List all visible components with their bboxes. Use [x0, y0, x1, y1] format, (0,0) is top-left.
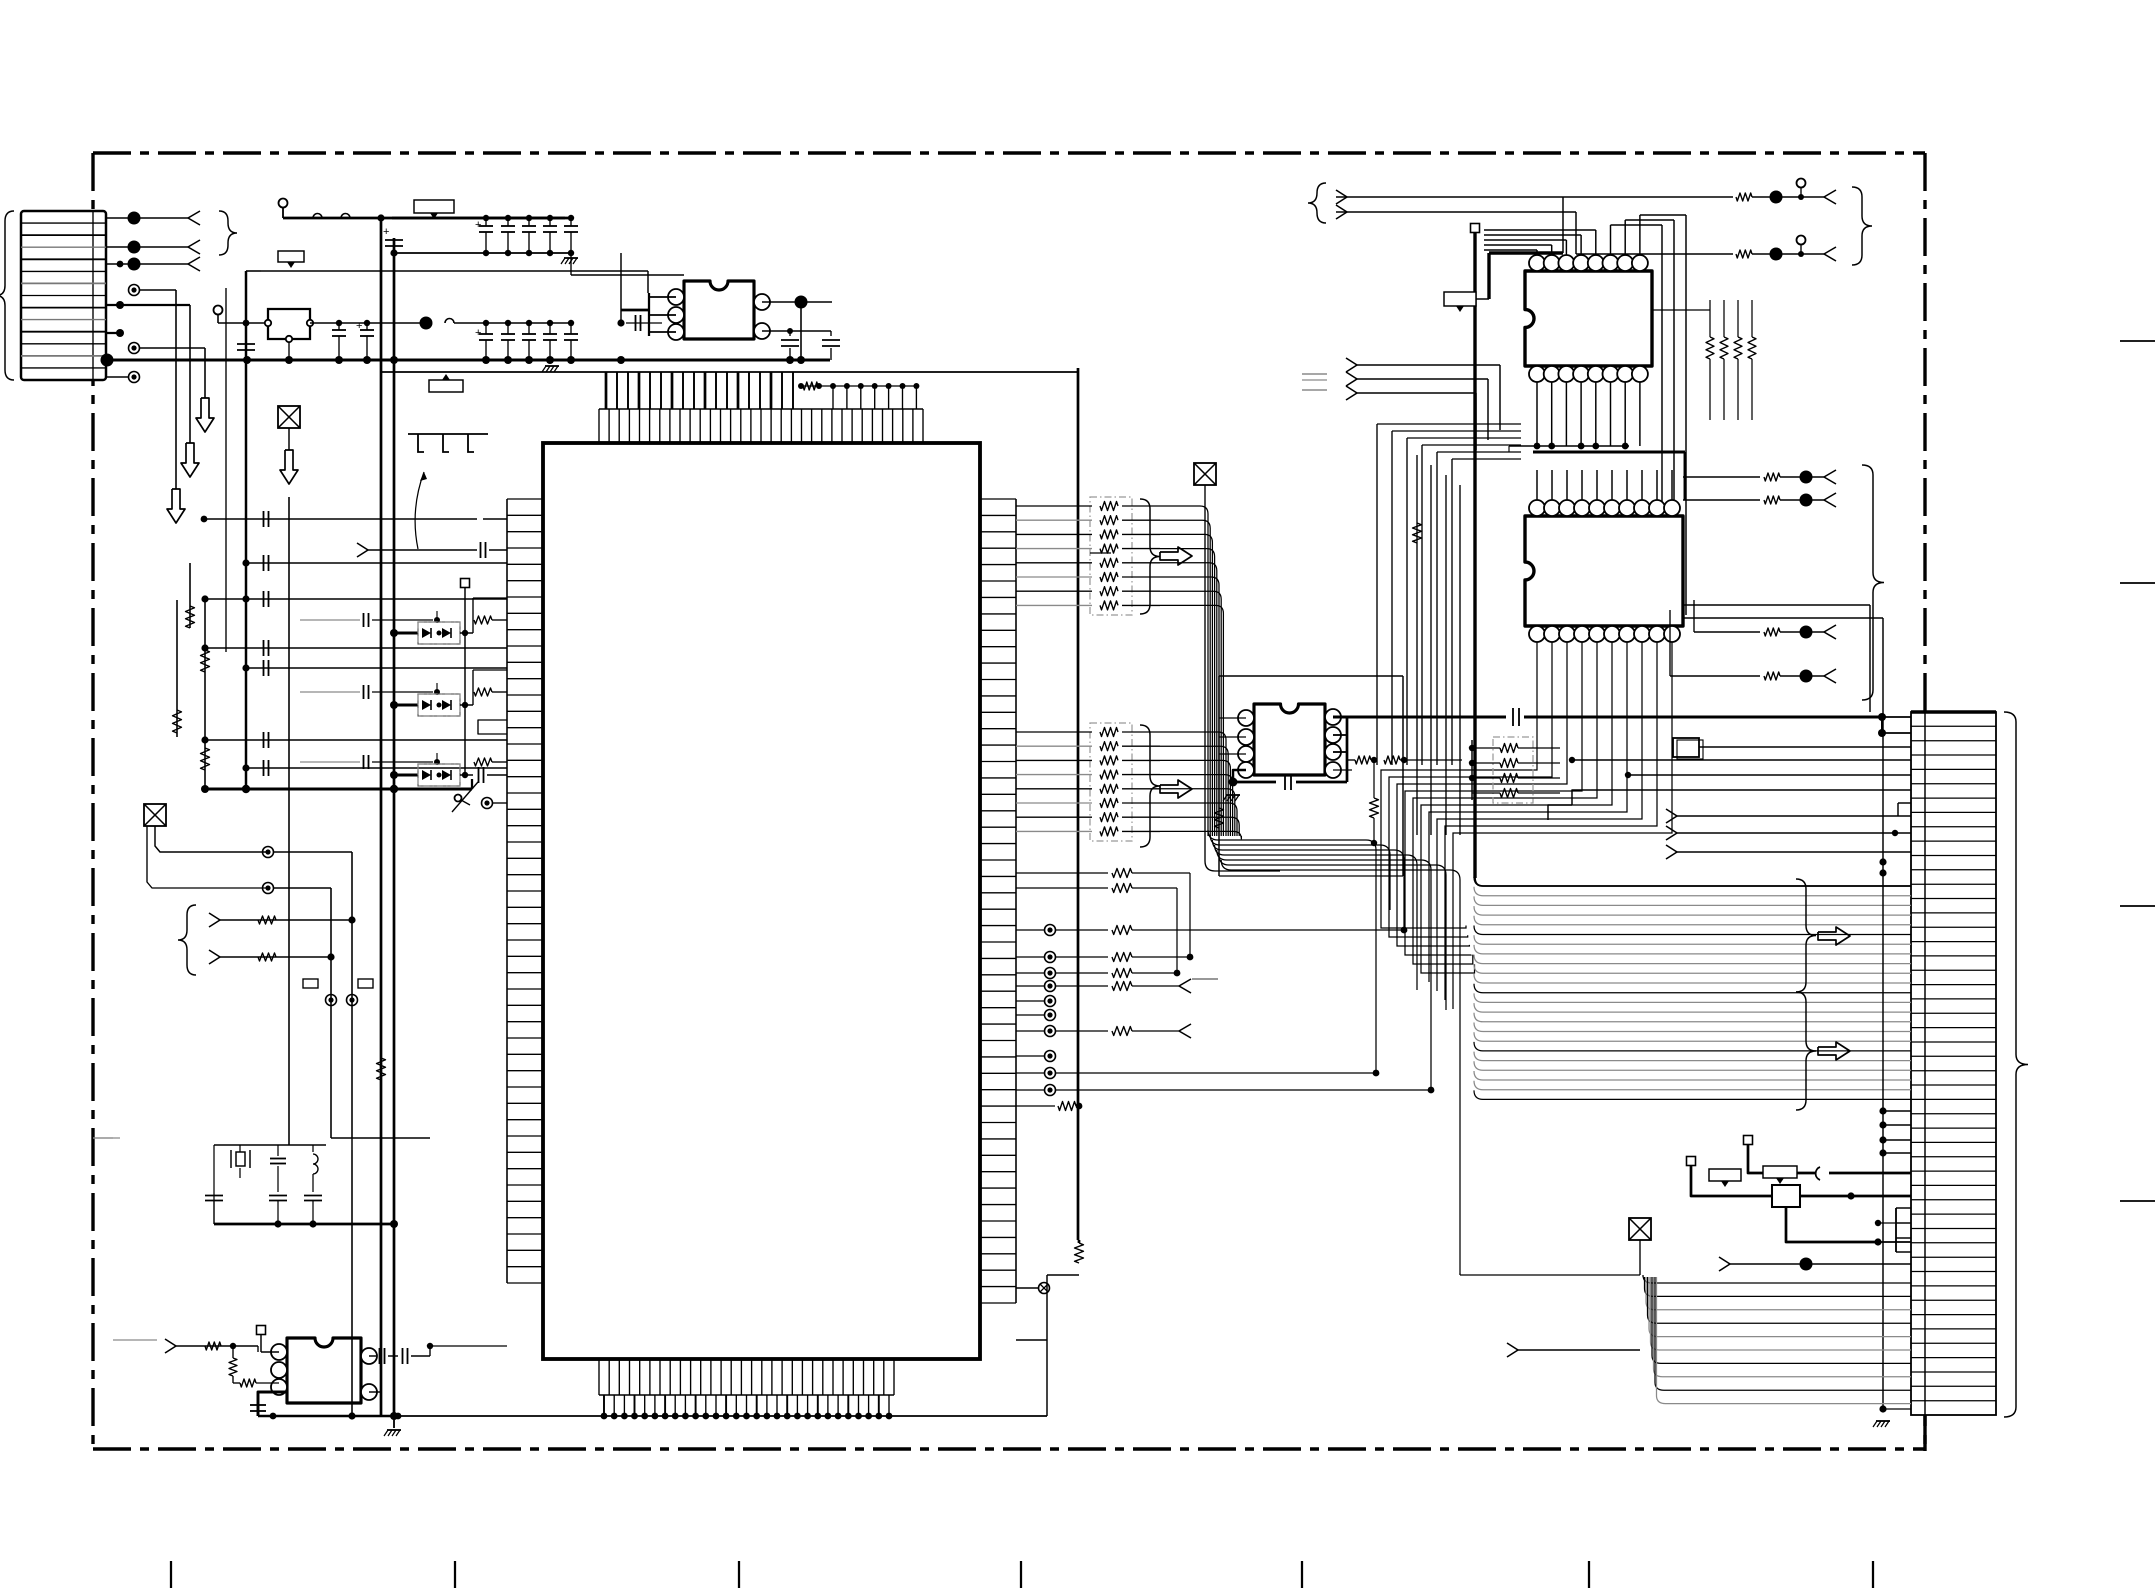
svg-text:+: +: [383, 226, 389, 238]
svg-text:+: +: [475, 327, 481, 339]
svg-text:+: +: [475, 219, 481, 231]
svg-text:+: +: [356, 320, 362, 332]
